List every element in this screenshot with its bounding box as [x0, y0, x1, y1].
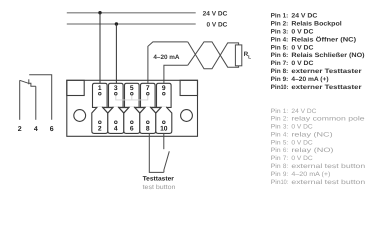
pin 4 cell: [108, 107, 124, 133]
pin 2 number and contact: [98, 121, 102, 133]
pin 7 number and contact: [146, 85, 150, 95]
polarizing key 4: [151, 108, 161, 114]
svg-text:4–20 mA: 4–20 mA: [153, 54, 180, 61]
svg-text:4: 4: [34, 126, 38, 133]
pin 10 number and contact: [160, 121, 168, 133]
svg-text:Pin8:externer Testtaster: Pin8:externer Testtaster: [271, 68, 363, 75]
wire 0 V rail to pin 3: [115, 24, 117, 83]
pin 3 cell: [109, 83, 124, 107]
pin 1 cell: [93, 83, 108, 107]
junction dot on 24 V rail: [98, 11, 101, 14]
load resistor RL: [235, 45, 241, 66]
svg-text:9: 9: [162, 85, 166, 92]
pin 3 number and contact: [114, 85, 118, 95]
svg-text:Pin6:Relais Schließer (NO): Pin6:Relais Schließer (NO): [271, 52, 365, 59]
0 V DC supply rail: [67, 23, 196, 25]
svg-text:Pin7:0 V DC: Pin7:0 V DC: [271, 60, 314, 67]
junction dot on 0 V rail: [115, 22, 118, 25]
relay contact armature: [20, 80, 36, 86]
polarizing key 1: [103, 108, 113, 114]
pin 5 cell: [125, 83, 140, 107]
svg-text:Testtaster: Testtaster: [143, 175, 175, 182]
svg-text:Pin10:external test button: Pin10:external test button: [271, 179, 366, 186]
4-20 mA loop wire to pin 7: [148, 42, 188, 84]
svg-text:Pin4:Relais Öffner (NC): Pin4:Relais Öffner (NC): [271, 35, 356, 43]
svg-text:Pin10:externer Testtaster: Pin10:externer Testtaster: [271, 84, 363, 91]
svg-text:Pin8:external test button: Pin8:external test button: [271, 163, 366, 170]
pin 10 cell: [156, 107, 172, 133]
pin 2 cell: [92, 107, 108, 133]
pin 8 cell: [140, 107, 156, 133]
internal 0 V bus pins 3-5-7: [116, 95, 148, 100]
wire 24 V rail to pin 1: [99, 13, 101, 84]
svg-text:Pin7:0 V DC: Pin7:0 V DC: [271, 155, 314, 162]
polarizing key 3: [135, 108, 145, 114]
pin 6 cell: [124, 107, 140, 133]
svg-text:5: 5: [130, 85, 134, 92]
wire pin 8 to test button: [149, 133, 164, 172]
connector keying notch right: [180, 80, 197, 95]
polarizing key 2: [119, 108, 129, 114]
mounting hole left: [74, 110, 86, 122]
svg-text:7: 7: [146, 85, 150, 92]
svg-text:Pin3:0 V DC: Pin3:0 V DC: [271, 124, 314, 131]
test button actuator arm: [164, 151, 169, 172]
svg-text:Pin3:0 V DC: Pin3:0 V DC: [271, 28, 314, 35]
pin list (German): [271, 13, 365, 92]
relay contact NC tick: [28, 79, 30, 84]
wire pin 10 to test button contact: [163, 133, 165, 149]
svg-text:Pin1:24 V DC: Pin1:24 V DC: [271, 108, 317, 115]
svg-text:Pin9:4–20 mA (+): Pin9:4–20 mA (+): [271, 171, 331, 178]
svg-text:0 V DC: 0 V DC: [207, 22, 228, 29]
svg-text:2: 2: [98, 126, 102, 133]
svg-text:Pin5:0 V DC: Pin5:0 V DC: [271, 139, 314, 146]
twisted pair conductor A: [188, 42, 239, 69]
relay contact NO terminal wire (6): [29, 75, 52, 120]
relay contact common terminal wire (2): [19, 80, 21, 120]
pin 5 number and contact: [130, 85, 134, 95]
pin list (English): [271, 108, 366, 186]
pin 8 number and contact: [146, 121, 150, 133]
svg-text:3: 3: [114, 85, 118, 92]
pin 1 number and contact: [98, 85, 102, 95]
relay contact NC terminal wire (4): [35, 86, 37, 120]
svg-text:Pin2:relay common pole: Pin2:relay common pole: [271, 116, 366, 123]
mounting hole right: [181, 110, 193, 122]
svg-text:24 V DC: 24 V DC: [203, 10, 228, 17]
svg-text:test button: test button: [143, 184, 176, 191]
twisted pair conductor B: [188, 42, 239, 67]
svg-text:Pin9:4–20 mA (+): Pin9:4–20 mA (+): [271, 76, 329, 83]
svg-text:Pin5:0 V DC: Pin5:0 V DC: [271, 44, 314, 51]
svg-text:6: 6: [50, 126, 54, 133]
pin 4 number and contact: [114, 121, 118, 133]
pin 7 cell: [141, 83, 156, 107]
svg-text:2: 2: [18, 126, 22, 133]
4-20 mA loop return wire to pin 9: [164, 65, 188, 83]
connector body: [67, 80, 198, 136]
svg-text:1: 1: [98, 85, 102, 92]
svg-text:Pin4:relay (NC): Pin4:relay (NC): [271, 132, 333, 139]
svg-text:6: 6: [130, 126, 134, 133]
pin 9 number and contact: [162, 85, 166, 95]
svg-text:Pin6:relay (NO): Pin6:relay (NO): [271, 147, 334, 154]
pin 9 cell: [157, 83, 172, 107]
svg-text:Pin1:24 V DC: Pin1:24 V DC: [271, 13, 318, 20]
svg-text:4: 4: [114, 126, 118, 133]
connector keying notch left: [67, 80, 84, 95]
svg-text:10: 10: [160, 126, 168, 133]
svg-text:8: 8: [146, 126, 150, 133]
24 V DC supply rail: [67, 12, 196, 14]
pin 6 number and contact: [130, 121, 134, 133]
